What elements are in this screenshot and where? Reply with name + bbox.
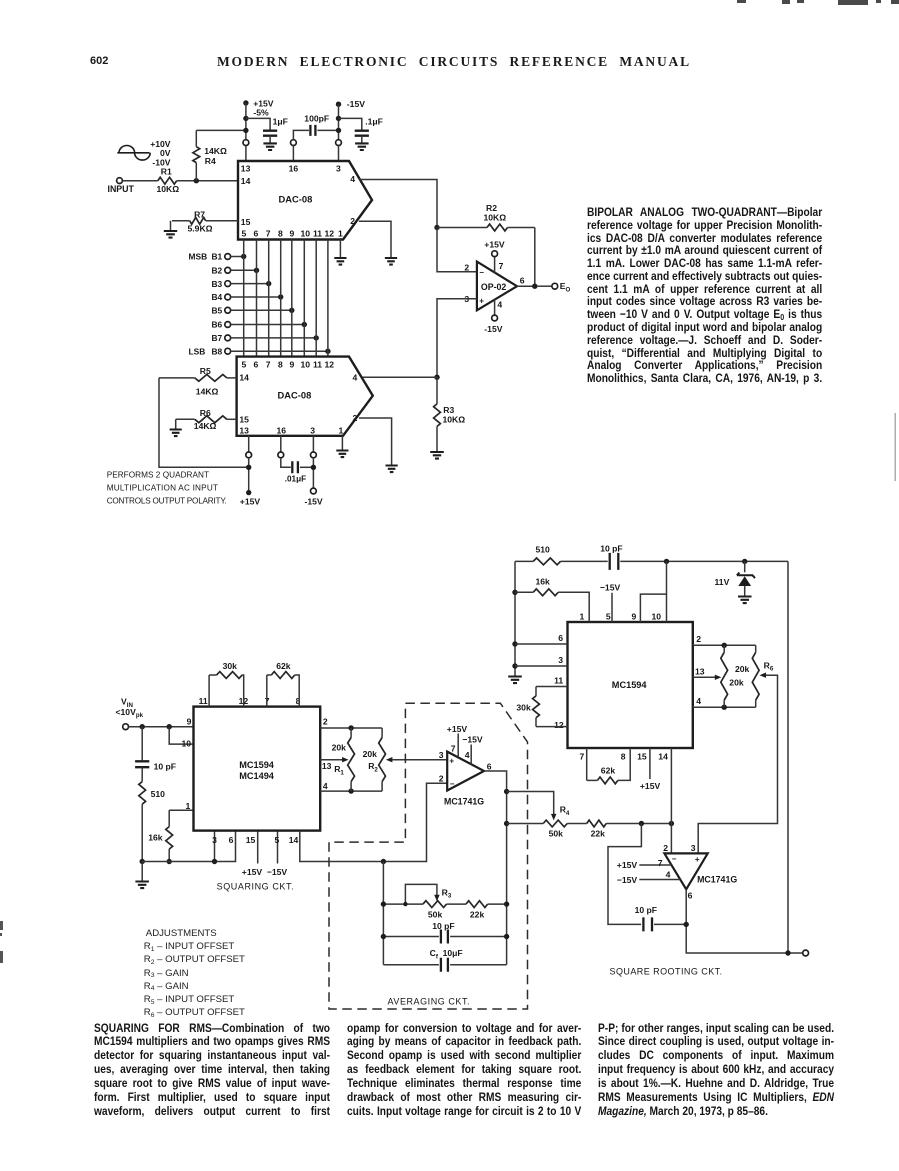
svg-text:20k: 20k [363,749,378,759]
node pin 4 / R1 bottom [348,788,353,793]
svg-text:SQUARE ROOTING CKT.: SQUARE ROOTING CKT. [610,967,723,977]
node pin9/pin10 branch [167,724,172,729]
svg-text:B1: B1 [212,252,223,262]
svg-text:3: 3 [310,425,315,435]
output terminal Eo [538,285,552,287]
node rail to zener [742,559,747,564]
node: R3 junction [434,375,439,380]
capacitor 1uF bypass on +15V [246,118,270,129]
svg-text:1μF: 1μF [273,116,288,126]
input terminal B6 [225,322,231,328]
wiper wire R2 to op-amp pin 3 [386,757,393,762]
svg-text:INPUT: INPUT [108,184,135,194]
bottom rail wire to pin 6 [142,831,235,862]
svg-text:50k: 50k [428,909,443,919]
node pin 14 U4 branch [669,821,674,826]
svg-text:5: 5 [242,359,247,369]
svg-text:−15V: −15V [267,867,288,877]
svg-text:OP-02: OP-02 [481,282,507,292]
svg-text:9: 9 [290,359,295,369]
svg-text:.01μF: .01μF [285,474,306,483]
svg-text:14: 14 [658,752,668,762]
svg-text:R6: R6 [764,660,774,672]
svg-text:LSB: LSB [189,346,206,356]
wire pin 2 lower DAC to ground [359,418,392,466]
potentiometer R6 20k output offset [755,645,757,652]
svg-text:1: 1 [339,425,344,435]
ground pin 2 upper DAC [385,258,397,265]
resistor R4 14K to +15V rail [195,163,197,181]
svg-text:MC1494: MC1494 [239,771,275,781]
wire R5 to pin 13 node [159,378,249,467]
svg-text:100pF: 100pF [304,114,329,124]
svg-text:7: 7 [658,858,663,868]
wire pin 14 U4 down [670,748,672,824]
node 16k bottom [167,859,172,864]
pin 3 lower DAC stub and -15V terminal [312,436,314,452]
right bus wire output loop [787,561,789,953]
node Vin branch [140,724,145,729]
+15V supply terminal [243,100,248,105]
DAC-08 U1 upper converter [238,161,372,240]
ground left rail [508,677,522,684]
svg-text:4: 4 [497,299,502,309]
op-amp 2 pin 4 -15V wire [639,879,680,881]
svg-text:20k: 20k [735,664,750,674]
op-amp output pin 6 wire [517,285,535,287]
svg-text:R4: R4 [560,805,570,817]
wire Vin to pin 9 [129,726,194,728]
svg-text:B2: B2 [212,266,223,276]
svg-text:R1: R1 [334,764,344,776]
svg-text:9: 9 [187,716,192,726]
node pin 6 tap [512,641,517,646]
svg-text:14KΩ: 14KΩ [194,421,217,431]
svg-text:7: 7 [451,744,456,754]
svg-text:9: 9 [290,229,295,239]
ground pin 2 lower DAC [386,466,398,473]
svg-text:−15V: −15V [617,875,638,885]
wire pin 4 lower DAC to R3 node [361,376,437,378]
potentiometer R2 20k output offset [381,728,383,738]
svg-text:MC1594: MC1594 [612,680,648,690]
node output to R4 wiper [504,789,509,794]
svg-text:10KΩ: 10KΩ [157,184,180,194]
svg-text:15: 15 [246,835,256,845]
svg-text:11: 11 [313,229,322,239]
ground for R6 [170,430,182,437]
svg-text:15: 15 [241,217,251,227]
svg-text:4: 4 [353,372,358,382]
op-amp 2 pin 7 +15V wire [639,864,671,866]
svg-text:MULTIPLICATION AC INPUT: MULTIPLICATION AC INPUT [107,483,218,492]
averaging network left rail [382,862,384,965]
svg-text:EO: EO [560,281,571,293]
svg-text:B7: B7 [212,333,223,343]
node pin 3 tap [512,663,517,668]
svg-text:2: 2 [464,263,469,273]
svg-text:+15V: +15V [640,781,661,791]
wire pin 4 U3 to pots [320,790,382,792]
svg-text:R1: R1 [161,166,172,176]
dashed box AVERAGING CKT [329,703,528,1009]
input terminal Vin [123,724,129,730]
capacitor .1uF bypass on -15V [339,118,362,129]
svg-text:10 pF: 10 pF [635,905,657,915]
caption column 3 [598,1022,834,1119]
svg-text:−: − [450,780,455,789]
svg-text:MC1741G: MC1741G [444,796,484,806]
svg-text:+: + [695,855,700,864]
node 16k tap [512,590,517,595]
svg-text:13: 13 [695,667,705,677]
open terminal pin 16 upper DAC [291,140,297,146]
svg-text:R2: R2 [368,761,378,773]
svg-text:30k: 30k [223,661,238,671]
svg-text:2: 2 [353,413,358,423]
potentiometer R3 50k gain [383,903,423,905]
op-amp U5 MC1741G averaging [447,752,484,791]
svg-text:10μF: 10μF [443,948,463,958]
running head MODERN ELECTRONIC CIRCUITS REFERENCE MANUAL [217,54,709,70]
svg-text:510: 510 [536,545,551,555]
svg-text:PERFORMS 2 QUADRANT: PERFORMS 2 QUADRANT [107,471,209,480]
wire pin 1 upper DAC to ground [339,240,341,259]
svg-text:R3: R3 [442,887,452,899]
svg-text:MC1741G: MC1741G [697,875,737,885]
svg-text:14: 14 [239,372,249,382]
svg-text:5: 5 [275,835,280,845]
svg-text:+: + [479,296,484,305]
svg-text:6: 6 [520,275,525,285]
node on +15V rail (R4 tap) [243,128,248,133]
wire feedback to 10pF square rooter [608,824,641,925]
input terminal B7 [225,335,231,341]
svg-text:B3: B3 [212,279,223,289]
svg-text:10: 10 [652,611,662,621]
svg-text:6: 6 [487,762,492,772]
svg-text:AVERAGING CKT.: AVERAGING CKT. [388,996,470,1006]
svg-text:16: 16 [277,425,287,435]
svg-text:7: 7 [580,752,585,762]
svg-text:6: 6 [558,633,563,643]
svg-text:6: 6 [688,890,693,900]
svg-text:-5%: -5% [253,108,269,118]
ground zener [738,597,752,604]
svg-text:10KΩ: 10KΩ [443,415,466,425]
svg-text:+: + [449,756,454,765]
node 10pF right on bus [504,934,509,939]
node: input junction [194,178,199,183]
svg-text:MC1594: MC1594 [239,760,275,770]
svg-text:B6: B6 [212,320,223,330]
svg-text:B8: B8 [212,346,223,356]
wiper wire R6 to op-amp 2 pin 3 [760,672,767,677]
svg-text:510: 510 [151,789,166,799]
node output 10pF tap [684,922,689,927]
svg-text:10 pF: 10 pF [432,921,454,931]
svg-text:10KΩ: 10KΩ [484,213,507,223]
open terminal pin 13 upper DAC [243,140,249,146]
top feedback rail of square rooter [515,560,533,562]
svg-text:-15V: -15V [305,496,323,506]
data bus wires pins 5-12 between DACs [243,240,245,357]
page number 602 [90,55,108,67]
svg-text:50k: 50k [549,829,564,839]
svg-text:5.9KΩ: 5.9KΩ [188,224,213,234]
capacitor 100pF compensation [310,125,315,136]
svg-text:6: 6 [254,229,259,239]
input terminal B8 [225,348,231,354]
wire op-amp noninverting input to R3 node [437,299,477,377]
node on -15V rail (bypass cap tap) [336,116,341,121]
svg-text:+15V: +15V [617,860,638,870]
svg-text:.1μF: .1μF [365,116,383,126]
wire to op-amp 2 inverting input [670,824,672,854]
svg-text:2: 2 [439,774,444,784]
svg-text:30k: 30k [516,703,531,713]
svg-text:−15V: −15V [462,734,483,744]
wire pin 3 stub [214,831,216,862]
svg-text:12: 12 [325,359,335,369]
svg-text:CONTROLS OUTPUT POLARITY.: CONTROLS OUTPUT POLARITY. [107,496,227,505]
multiplier U3 MC1594/MC1494 [194,707,321,831]
capacitor 10 pF square rooter feedback [643,917,652,931]
node: inverting input junction [434,225,439,230]
svg-text:15: 15 [637,752,647,762]
ground for .1uF [355,143,369,150]
svg-text:15: 15 [239,414,249,424]
svg-text:+15V: +15V [242,867,263,877]
wire R2 to output node [534,228,536,287]
node right bus join [785,950,790,955]
R3 wiper bypass loop [405,884,437,904]
svg-text:−: − [672,855,677,864]
node 10pF left [381,934,386,939]
op-amp pin 7 stub +15V [457,734,459,758]
svg-text:20k: 20k [332,742,347,752]
ground for R3 [430,452,444,459]
caption column 1: SQUARING FOR RMS [94,1022,330,1119]
svg-text:22k: 22k [470,909,485,919]
node averaging network tap [381,859,386,864]
node pin 4 pot bottom [722,705,727,710]
left rail of square rooter [514,561,516,676]
capacitor 10 pF input [141,727,143,761]
wire pins 9-10 jog [640,594,666,622]
node R4 line [504,821,509,826]
svg-text:10 pF: 10 pF [154,761,176,771]
svg-text:4: 4 [323,781,328,791]
output terminal square rooter [803,950,809,956]
resistor R5 14K reference feedback [227,377,237,379]
input terminal B3 [225,281,231,287]
svg-text:4: 4 [666,870,671,880]
svg-text:B5: B5 [212,306,223,316]
open terminal pin 3 upper DAC [336,140,342,146]
svg-text:3: 3 [212,835,217,845]
pin 13 lower DAC stub and +15V terminal [248,436,250,452]
multiplier U4 MC1594 square rooter [568,622,693,748]
svg-text:+15V: +15V [484,239,505,249]
capacitor .01uF between pins 16 and 3 [281,458,291,468]
svg-text:R6: R6 [200,408,211,418]
wire pin 2 U3 to pots [320,727,382,729]
wire pin 2 upper DAC to ground [359,221,391,258]
resistor 22k to square rooter [587,820,607,827]
wire op-amp 1 output down main bus [484,771,507,965]
svg-text:-15V: -15V [347,99,365,109]
resistor 62k across pins 7-8 [266,675,268,707]
page top edge scan artifacts [737,0,899,5]
svg-text:2: 2 [663,843,668,853]
wire pin 10 jog [169,727,193,744]
wire pin 5 stub -15V [277,831,279,864]
svg-text:12: 12 [325,229,335,239]
svg-text:+15V: +15V [240,496,261,506]
svg-text:10: 10 [301,229,311,239]
page left edge scan artifacts [0,921,3,963]
potentiometer R4 50k gain [507,823,544,825]
svg-text:8: 8 [278,359,283,369]
input terminal B1 [225,254,231,260]
svg-text:11: 11 [199,696,208,706]
wire rail to ground [141,862,143,882]
input terminal B4 [225,294,231,300]
svg-text:12: 12 [554,720,564,730]
resistor 16k square rooter [533,589,558,596]
node rail to pin 10 [664,559,669,564]
ground input network [135,882,149,889]
wire pin 13 wiper arrow [693,676,717,678]
ground for R7 [164,231,177,238]
node feedback cap branch [639,821,644,826]
svg-text:4: 4 [350,174,355,184]
resistor 16k pin 1 network [169,809,193,811]
zener diode 11V [744,561,746,572]
svg-text:5: 5 [606,611,611,621]
wire pin 14 U3 squaring rail [300,783,447,861]
potentiometer R1 20k input offset [350,728,352,738]
resistor R3 10K to ground [436,377,438,404]
svg-text:14: 14 [241,176,251,186]
resistor R6 14K to ground [227,418,237,420]
resistor R7 5.9K to ground [206,220,238,222]
svg-text:R7: R7 [194,209,205,219]
sine-wave input source symbol [117,146,150,161]
svg-text:62k: 62k [276,661,291,671]
svg-text:R5: R5 [200,366,211,376]
svg-text:3: 3 [336,164,341,174]
resistor 510 input [141,767,143,781]
op-amp U5 OP-02 [477,262,517,311]
svg-text:3: 3 [558,655,563,665]
resistor R1 10K input [122,180,157,182]
svg-text:16: 16 [289,164,299,174]
svg-text:14KΩ: 14KΩ [196,387,219,397]
svg-text:8: 8 [621,752,626,762]
wire pin 2 U4 to pots [693,644,756,646]
svg-text:−15V: −15V [600,583,621,593]
svg-text:-15V: -15V [484,324,502,334]
svg-text:13: 13 [241,164,251,174]
resistor 30k across pins 11-12 [208,675,210,707]
svg-text:16k: 16k [536,576,551,586]
resistor 30k pins 11-12 U4 [536,686,568,688]
svg-text:62k: 62k [601,765,616,775]
svg-text:13: 13 [239,425,249,435]
svg-text:10 pF: 10 pF [600,543,622,553]
svg-text:2: 2 [696,634,701,644]
svg-text:MSB: MSB [189,252,208,262]
op-amp pin 4 stub -15V [470,745,472,765]
node pin 2 pot top [722,643,727,648]
resistor 510 square rooter [533,558,560,565]
resistor 62k pins 7-8 U4 [586,748,588,780]
svg-text:R2: R2 [486,203,497,213]
svg-text:14: 14 [289,835,299,845]
node pin 2 / R1 top [348,725,353,730]
svg-text:1: 1 [580,611,585,621]
svg-text:10: 10 [182,738,192,748]
svg-text:6: 6 [254,359,259,369]
wire to op-amp inverting input pin 2 [437,228,477,272]
INPUT terminal [117,178,123,184]
svg-text:11: 11 [554,675,563,685]
svg-text:16k: 16k [148,832,163,842]
svg-text:2: 2 [323,716,328,726]
svg-text:7: 7 [266,229,271,239]
svg-text:1: 1 [186,801,191,811]
wire pin 10 to rail [666,561,668,622]
wire pin 6 U4 to left rail [515,643,568,645]
svg-text:22k: 22k [591,829,606,839]
node on +15V rail (bypass cap tap) [243,116,248,121]
svg-text:13: 13 [322,761,332,771]
svg-text:5: 5 [242,229,247,239]
op-amp pin 7 +15V supply [494,257,496,274]
node pin 3 rail [212,859,217,864]
node on -15V rail (100pF tap) [336,128,341,133]
wire op-amp 2 output to terminal [686,889,803,953]
svg-text:1: 1 [338,229,343,239]
input terminal B2 [225,267,231,273]
svg-text:11: 11 [313,359,322,369]
wire pin 13 with wiper arrow to R1 [320,759,344,761]
svg-text:9: 9 [632,611,637,621]
svg-text:−: − [479,268,484,277]
ground for 1uF [263,143,277,150]
svg-text:+15V: +15V [447,724,468,734]
node R3 right on bus [504,901,509,906]
page right edge scan artifact line [895,413,896,481]
svg-text:0V: 0V [160,148,171,158]
svg-text:DAC-08: DAC-08 [278,389,312,400]
svg-text:14KΩ: 14KΩ [204,146,227,156]
DAC-08 U2 lower converter [237,357,373,436]
caption text block: BIPOLAR ANALOG TWO-QUADRANT [587,206,822,385]
wire pin 3 U4 to left rail [515,665,568,667]
wire R4 wiper connection [507,792,554,817]
adjustments list [144,927,245,1019]
svg-text:20k: 20k [729,678,744,688]
svg-text:B4: B4 [212,292,223,302]
svg-text:7: 7 [266,359,271,369]
+15V stub pin 15 U4 [649,748,651,779]
svg-text:4: 4 [465,750,470,760]
potentiometer 20k square rooter offset [723,645,725,652]
svg-text:10: 10 [301,359,311,369]
